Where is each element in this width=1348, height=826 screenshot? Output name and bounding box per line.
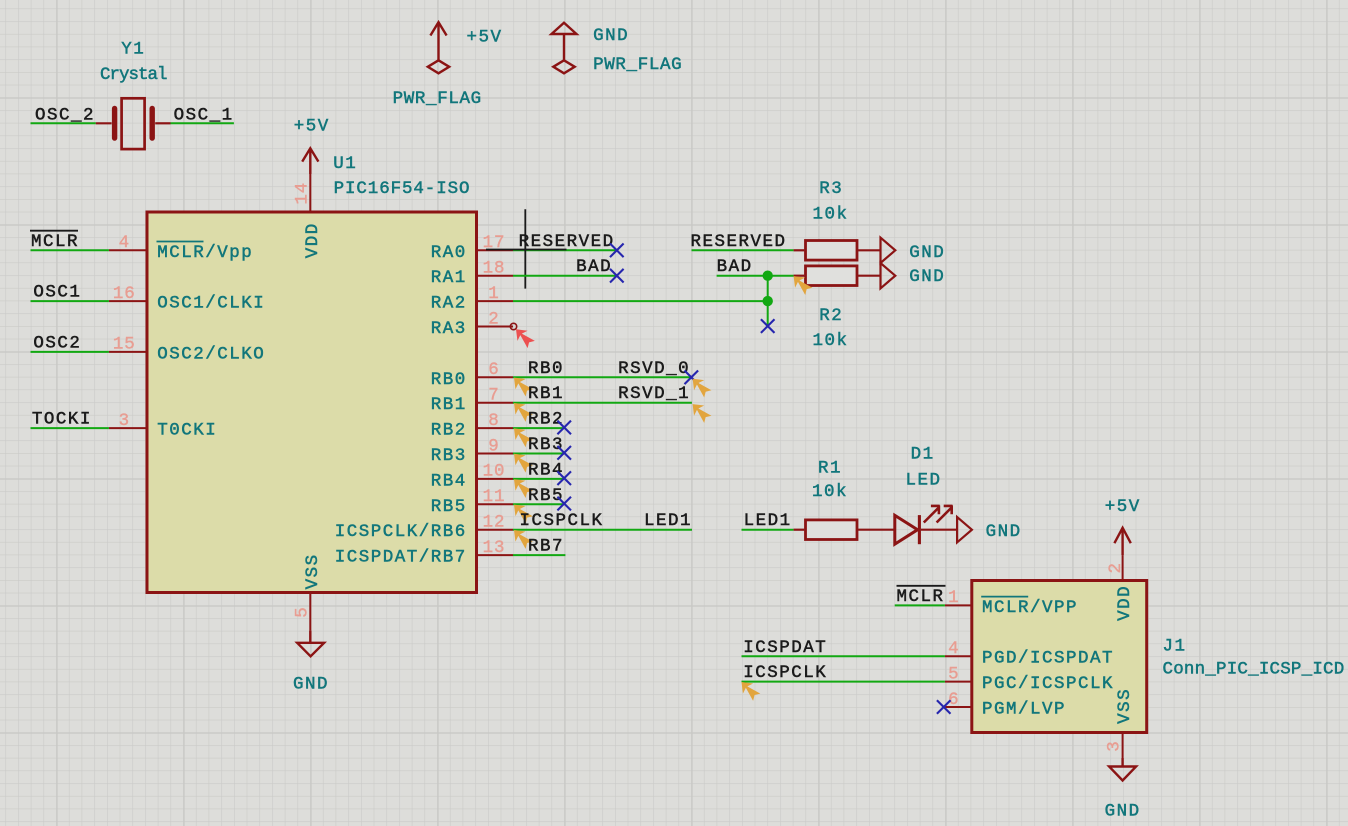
svg-text:GND: GND	[909, 267, 945, 287]
pin RA3 open circle	[510, 323, 516, 329]
svg-text:11: 11	[483, 487, 506, 507]
svg-text:Y1: Y1	[121, 40, 145, 60]
svg-text:9: 9	[488, 436, 499, 456]
U1 pin 5 VSS (bottom)	[309, 593, 311, 631]
U1 pin names left	[157, 242, 266, 441]
svg-text:MCLR: MCLR	[31, 232, 79, 252]
svg-text:5: 5	[948, 664, 959, 684]
ERC arrow RB6	[514, 530, 533, 549]
svg-text:+5V: +5V	[467, 27, 503, 47]
J1 pin 3 VSS bottom	[1122, 733, 1124, 759]
wire MCLR	[31, 249, 109, 251]
svg-text:T0CKI: T0CKI	[157, 421, 217, 441]
svg-text:MCLR/VPP: MCLR/VPP	[982, 598, 1078, 618]
svg-text:R2: R2	[819, 306, 843, 326]
wire RB0	[513, 376, 691, 378]
svg-text:13: 13	[483, 538, 506, 558]
svg-text:TOCKI: TOCKI	[32, 410, 92, 430]
wire LED1 to R1	[742, 529, 794, 531]
svg-text:12: 12	[483, 513, 506, 533]
svg-text:5: 5	[293, 606, 313, 617]
ERC arrow R2 pin	[794, 276, 813, 295]
ERC arrow RB3	[514, 454, 533, 473]
wire ICSPDAT to J1	[742, 655, 945, 657]
svg-text:ICSPCLK: ICSPCLK	[743, 663, 827, 683]
svg-text:10k: 10k	[812, 204, 848, 224]
svg-text:GND: GND	[593, 26, 629, 46]
J1 pin numbers	[948, 588, 959, 710]
svg-text:OSC1: OSC1	[33, 283, 81, 303]
svg-text:RSVD_1: RSVD_1	[618, 384, 690, 404]
svg-text:RB5: RB5	[528, 486, 564, 506]
svg-text:RB3: RB3	[528, 435, 564, 455]
wire OSC2	[31, 351, 109, 353]
svg-text:OSC_1: OSC_1	[174, 105, 234, 125]
J1 pin stubs left	[945, 605, 972, 707]
svg-text:RB4: RB4	[528, 460, 564, 480]
IC U1 body	[147, 212, 477, 593]
svg-text:LED1: LED1	[744, 511, 792, 531]
wire RB5	[513, 503, 564, 505]
ERC arrow RB2	[514, 428, 533, 447]
svg-text:ICSPCLK/RB6: ICSPCLK/RB6	[335, 522, 467, 542]
wire RB3	[513, 453, 564, 455]
GND symbol right of LED	[957, 517, 972, 542]
wire vertical BAD net	[767, 276, 769, 326]
svg-text:ICSPDAT/RB7: ICSPDAT/RB7	[335, 548, 467, 568]
wire OSC_1	[171, 122, 234, 124]
svg-text:GND: GND	[1105, 802, 1141, 822]
svg-text:2: 2	[1106, 562, 1126, 573]
wire RB4	[513, 478, 564, 480]
svg-text:4: 4	[119, 233, 130, 253]
U1 pin 14 VDD (top)	[309, 174, 311, 212]
no-connect X RB0	[685, 371, 699, 385]
svg-text:Crystal: Crystal	[100, 65, 167, 85]
svg-text:BAD: BAD	[576, 257, 612, 277]
resistor R2	[794, 266, 881, 286]
power flag GND symbol	[552, 23, 577, 74]
U1 pin names right	[335, 243, 467, 568]
wire MCLR at J1	[895, 604, 945, 606]
svg-text:BAD: BAD	[717, 257, 753, 277]
wire RA2 long	[513, 300, 768, 302]
svg-text:ICSPDAT: ICSPDAT	[743, 638, 827, 658]
svg-text:RSVD_0: RSVD_0	[618, 359, 690, 379]
GND symbol at U1	[297, 631, 324, 657]
svg-text:10k: 10k	[812, 482, 848, 502]
wire RB2	[513, 427, 564, 429]
svg-text:+5V: +5V	[294, 117, 330, 137]
wire RA1 to no-connect	[513, 275, 617, 277]
svg-text:4: 4	[948, 639, 959, 659]
svg-text:GND: GND	[293, 674, 329, 694]
svg-text:7: 7	[488, 386, 499, 406]
J1 pin names	[981, 597, 1114, 720]
ERC arrow RB1 start	[514, 403, 533, 422]
U1 left pin numbers	[113, 233, 136, 431]
svg-text:+5V: +5V	[1105, 497, 1141, 517]
svg-text:PWR_FLAG: PWR_FLAG	[393, 89, 482, 109]
svg-text:LED1: LED1	[644, 511, 692, 531]
GND symbol at J1	[1109, 758, 1136, 781]
wire BAD to junction	[717, 275, 794, 277]
no-connect X RB2	[557, 421, 571, 435]
+5V symbol at J1	[1114, 528, 1130, 555]
wire RB1	[513, 402, 692, 404]
svg-text:OSC_2: OSC_2	[35, 105, 95, 125]
LED D1	[895, 505, 957, 544]
wire RB6 ICSPCLK	[513, 529, 692, 531]
svg-text:3: 3	[1105, 740, 1125, 751]
U1 right pin numbers	[483, 233, 506, 558]
svg-text:8: 8	[488, 411, 499, 431]
ERC arrow RB4	[514, 479, 533, 498]
svg-text:R1: R1	[818, 459, 842, 479]
svg-text:RB2: RB2	[431, 421, 467, 441]
J1 pin 2 VDD top	[1122, 555, 1124, 580]
crystal Y1	[96, 98, 171, 149]
wire ICSPCLK to J1	[742, 681, 945, 683]
no-connect X RB5	[557, 497, 571, 511]
svg-text:RA0: RA0	[431, 243, 467, 263]
svg-text:RA1: RA1	[431, 268, 467, 288]
svg-text:LED: LED	[905, 470, 941, 490]
graphic line horizontal	[486, 249, 567, 251]
no-connect X RA1	[610, 269, 624, 283]
graphic line vertical	[524, 209, 526, 288]
no-connect X vertical end	[761, 319, 775, 333]
svg-text:MCLR/Vpp: MCLR/Vpp	[157, 243, 253, 263]
svg-text:RB1: RB1	[528, 384, 564, 404]
svg-text:PGM/LVP: PGM/LVP	[982, 700, 1066, 720]
svg-text:VSS: VSS	[303, 553, 323, 589]
connector J1 body	[972, 581, 1147, 733]
U1 left pin stubs	[109, 250, 147, 428]
junction RA2	[763, 296, 773, 306]
svg-text:6: 6	[488, 360, 499, 380]
svg-text:10: 10	[483, 462, 506, 482]
ERC arrow RB0 start	[514, 378, 533, 397]
svg-text:RB1: RB1	[431, 395, 467, 415]
svg-text:2: 2	[488, 309, 499, 329]
svg-text:OSC2/CLKO: OSC2/CLKO	[157, 344, 265, 364]
wire OSC1	[31, 300, 109, 302]
svg-text:VSS: VSS	[1115, 688, 1135, 724]
no-connect X RB3	[557, 446, 571, 460]
GND symbol right R2	[881, 263, 896, 288]
svg-text:16: 16	[113, 284, 136, 304]
svg-text:RB0: RB0	[528, 359, 564, 379]
wire RB7	[513, 554, 565, 556]
svg-text:PWR_FLAG: PWR_FLAG	[593, 55, 682, 75]
svg-text:VDD: VDD	[303, 222, 323, 258]
svg-text:RB0: RB0	[431, 370, 467, 390]
GND symbol right R3	[881, 238, 896, 263]
svg-text:RB3: RB3	[431, 446, 467, 466]
svg-text:OSC2: OSC2	[33, 333, 81, 353]
no-connect X J1 pin6	[937, 700, 951, 714]
svg-text:GND: GND	[909, 243, 945, 263]
wire RA0 to no-connect	[513, 249, 617, 251]
svg-text:1: 1	[488, 284, 499, 304]
svg-text:RA3: RA3	[431, 319, 467, 339]
U1 right pin stubs	[477, 250, 514, 555]
svg-text:PGC/ICSPCLK: PGC/ICSPCLK	[982, 674, 1114, 694]
svg-text:10k: 10k	[812, 331, 848, 351]
svg-text:RB7: RB7	[528, 537, 564, 557]
svg-text:ICSPCLK: ICSPCLK	[520, 511, 604, 531]
resistor R3	[794, 241, 881, 261]
svg-text:RB4: RB4	[431, 471, 467, 491]
svg-text:15: 15	[113, 335, 136, 355]
wire TOCKI	[31, 427, 109, 429]
ERC arrow RB0 end	[693, 379, 712, 398]
ERC arrow RB1 end	[693, 404, 712, 423]
no-connect X RA0	[610, 244, 624, 258]
svg-text:RB2: RB2	[528, 410, 564, 430]
svg-text:GND: GND	[986, 522, 1022, 542]
svg-text:3: 3	[119, 411, 130, 431]
svg-text:RB5: RB5	[431, 497, 467, 517]
svg-text:14: 14	[293, 182, 313, 205]
svg-text:RA2: RA2	[431, 294, 467, 314]
no-connect X RB4	[557, 471, 571, 485]
svg-text:VDD: VDD	[1115, 585, 1135, 621]
power flag +5V symbol	[428, 22, 449, 73]
svg-text:1: 1	[948, 588, 959, 608]
svg-text:U1: U1	[333, 154, 357, 174]
svg-text:OSC1/CLKI: OSC1/CLKI	[157, 294, 265, 314]
svg-text:18: 18	[483, 259, 506, 279]
svg-text:PIC16F54-ISO: PIC16F54-ISO	[334, 179, 471, 199]
+5V symbol at U1	[302, 148, 318, 174]
svg-text:J1: J1	[1163, 637, 1187, 657]
ERC red arrow RA3	[516, 329, 535, 348]
svg-text:D1: D1	[911, 444, 935, 464]
ERC arrow ICSPCLK	[742, 682, 761, 701]
svg-text:RESERVED: RESERVED	[691, 232, 787, 252]
resistor R1	[794, 520, 895, 540]
ERC arrow RB5	[514, 505, 533, 524]
svg-text:Conn_PIC_ICSP_ICD: Conn_PIC_ICSP_ICD	[1163, 660, 1345, 680]
junction BAD/R2	[763, 271, 773, 281]
wire RESERVED to R3	[692, 249, 794, 251]
svg-text:R3: R3	[819, 179, 843, 199]
wire OSC_2	[31, 122, 96, 124]
svg-text:PGD/ICSPDAT: PGD/ICSPDAT	[982, 649, 1114, 669]
svg-text:MCLR: MCLR	[896, 587, 944, 607]
